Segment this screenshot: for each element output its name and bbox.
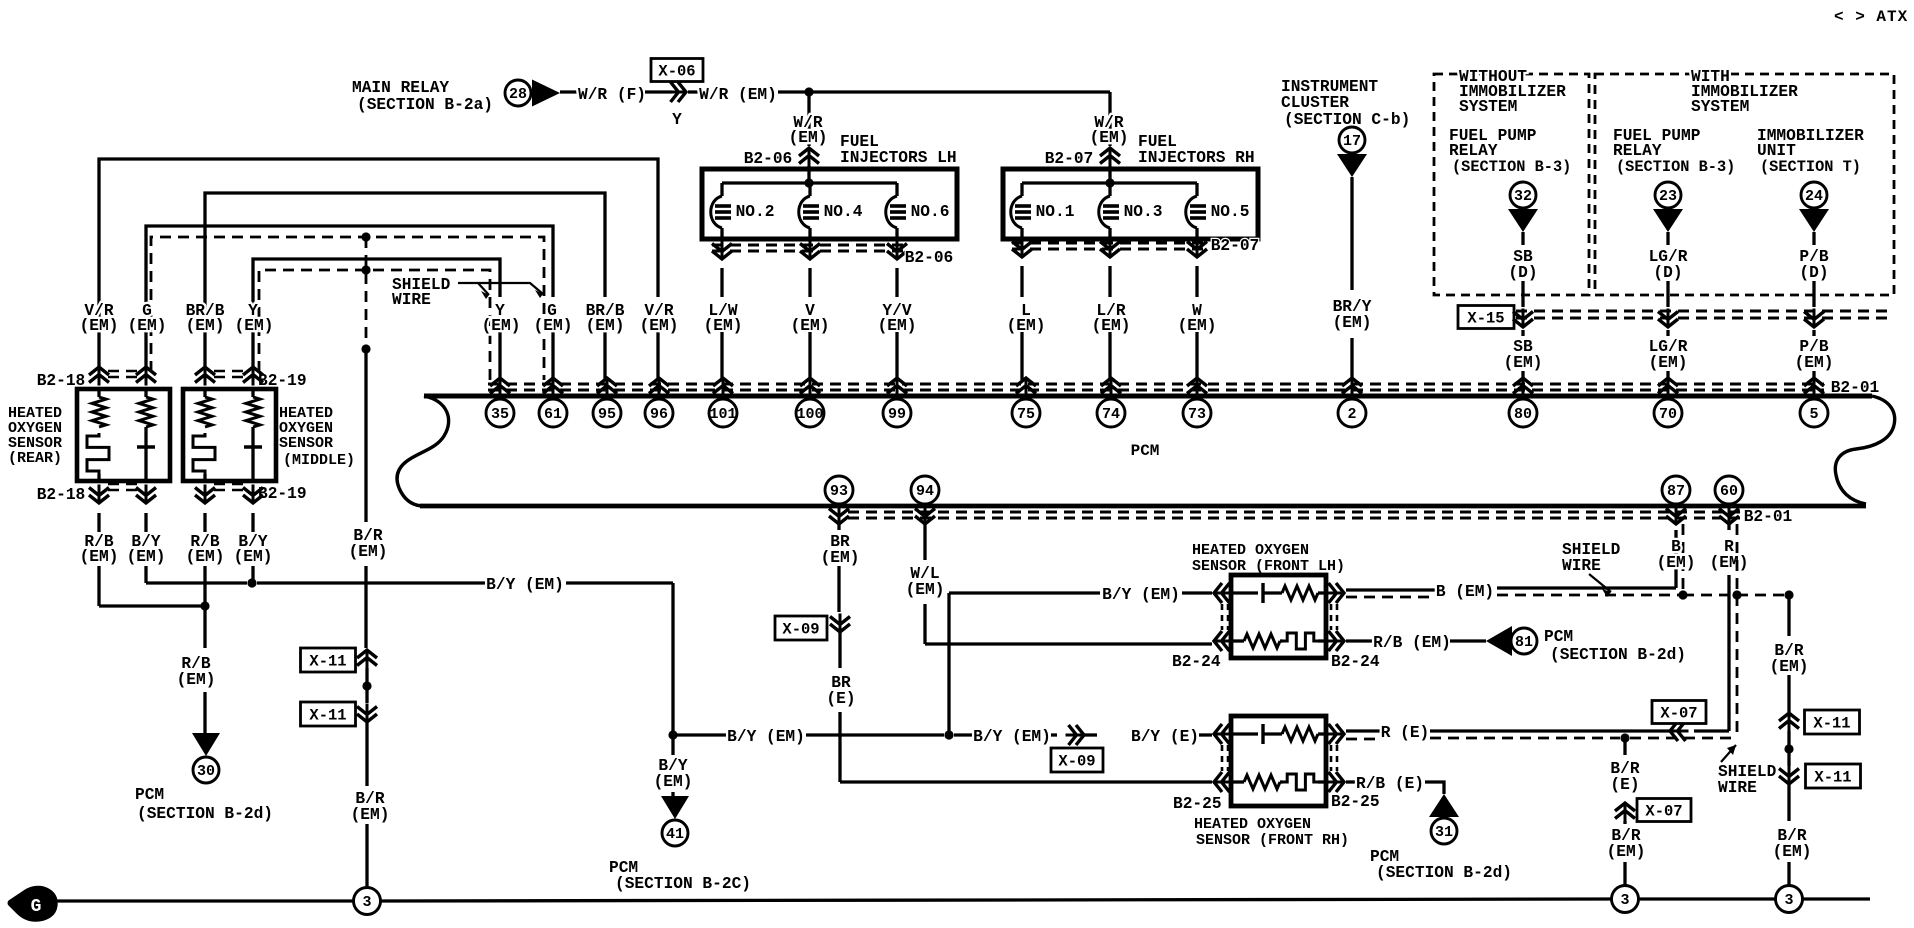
svg-text:(SECTION B-2a): (SECTION B-2a): [357, 96, 493, 114]
ground junction circle 3 right: [1776, 886, 1803, 913]
connector X-07 box lower: [1637, 799, 1691, 822]
connector B2-07 bottom dashed bus: [1012, 242, 1205, 245]
svg-text:(EM): (EM): [235, 317, 274, 335]
wire R/B (E) from front RH heater: [1346, 780, 1357, 783]
svg-text:INJECTORS RH: INJECTORS RH: [1138, 149, 1255, 167]
svg-text:B/Y (EM): B/Y (EM): [486, 576, 564, 594]
svg-text:(EM): (EM): [128, 317, 167, 335]
front RH sensor chevron left top: [1214, 733, 1233, 736]
heated oxygen sensor front LH box: [1231, 575, 1326, 658]
front RH sensor element row: [1231, 732, 1258, 735]
svg-text:(EM): (EM): [80, 548, 119, 566]
connector X-06 box: [651, 59, 703, 82]
svg-text:CLUSTER: CLUSTER: [1281, 94, 1349, 112]
wire W/R(EM) from X-06: [688, 90, 700, 93]
wire Y middle sensor to pin 35: [253, 259, 500, 368]
svg-text:(EM): (EM): [1795, 354, 1834, 372]
connector X-15 box: [1458, 306, 1514, 329]
connector circle 24: [1801, 182, 1827, 208]
svg-text:(EM): (EM): [186, 317, 225, 335]
svg-text:NO.3: NO.3: [1124, 203, 1163, 221]
svg-text:B2-06: B2-06: [744, 150, 793, 168]
wire R/B rear down: [97, 513, 100, 532]
wire injector to PCM: [808, 268, 811, 297]
wire B/R (EM) to ground right: [1623, 821, 1626, 824]
junction dot B/Y to sensor feed: [944, 730, 953, 739]
connector B2-01 chevron pin 96: [658, 378, 661, 397]
middle sensor heater resistor: [203, 389, 206, 397]
svg-text:B2-07: B2-07: [1045, 150, 1094, 168]
injector NO.4 coil: [808, 183, 811, 196]
svg-text:X-11: X-11: [309, 707, 346, 725]
connector B2-01 top dashed bus: [488, 383, 1824, 386]
svg-text:100: 100: [796, 406, 823, 423]
connector X-07 chevron: [1670, 730, 1689, 733]
ground junction circle 3 left: [354, 888, 381, 915]
svg-text:X-07: X-07: [1660, 705, 1697, 723]
connector B2-01 chevron pin 2: [1351, 378, 1354, 397]
wire LG/R (EM) to pin 70: [1666, 330, 1669, 336]
wire R/B rear to junction: [99, 604, 205, 607]
svg-text:41: 41: [666, 826, 684, 843]
wire BR/Y (EM): [1350, 177, 1353, 290]
svg-text:93: 93: [830, 483, 848, 500]
wire G rear sensor to pin 61: [146, 226, 553, 368]
connector B2-06 chevron bottom: [721, 241, 724, 260]
svg-text:(EM): (EM): [640, 317, 679, 335]
wire B/R (E) drop from shield: [1623, 738, 1626, 755]
svg-text:(EM): (EM): [349, 543, 388, 561]
connector X-11 box lower: [301, 702, 356, 726]
connector B2-19 top chevrons: [204, 367, 207, 386]
junction dot W/R: [804, 87, 813, 96]
wire injector RH to PCM: [1108, 266, 1111, 297]
svg-text:SYSTEM: SYSTEM: [1691, 98, 1749, 116]
ground bus wire end: [1803, 897, 1870, 900]
PCM pin 80: [1509, 399, 1537, 427]
connector B2-01 bottom chevron pin 60: [1728, 506, 1731, 525]
svg-text:B2-06: B2-06: [905, 249, 954, 267]
PCM pin 75: [1012, 399, 1040, 427]
middle sensor element resistor: [251, 389, 254, 397]
svg-text:(EM): (EM): [1710, 554, 1749, 572]
PCM pin 73: [1183, 399, 1211, 427]
junction dot shield B/R (E): [1620, 733, 1629, 742]
connector B2-06 bottom dashed bus: [712, 244, 905, 247]
wire R (E) to pin 60 riser: [1694, 729, 1729, 732]
svg-text:MAIN RELAY: MAIN RELAY: [352, 79, 449, 97]
svg-text:X-11: X-11: [1814, 769, 1851, 787]
injectors LH internal bus wire: [722, 181, 897, 184]
wire B/R (EM) down to ground: [1787, 784, 1790, 821]
svg-text:(EM): (EM): [1504, 354, 1543, 372]
junction dot shield 60: [1732, 590, 1741, 599]
svg-text:32: 32: [1514, 188, 1532, 205]
svg-text:(EM): (EM): [821, 549, 860, 567]
wire R (E) from front RH sensor: [1346, 729, 1380, 732]
arrow to PCM 81: [1486, 626, 1512, 656]
PCM pin 99: [883, 399, 911, 427]
front RH sensor chevron right bottom: [1326, 781, 1345, 784]
connector B2-01 chevron pin 95: [606, 378, 609, 397]
svg-text:(REAR): (REAR): [8, 450, 62, 467]
svg-text:(EM): (EM): [1770, 658, 1809, 676]
svg-text:B/Y (E): B/Y (E): [1131, 728, 1199, 746]
wire B/Y rear to the right: [146, 581, 247, 584]
junction dot shield B/R: [1784, 590, 1793, 599]
shield drain wire B/R dashed segment: [365, 237, 368, 349]
arrow to PCM 30: [192, 733, 220, 756]
arrow from fuel pump relay 32: [1508, 209, 1538, 232]
wire BR/B middle sensor to pin 95: [205, 193, 605, 368]
wire B/Y (EM) to X-09: [954, 733, 973, 736]
arrow from immobilizer unit 24: [1799, 209, 1829, 232]
shield dashed wire to B/R drop: [1683, 594, 1789, 597]
wire B/R (EM) right drop: [1787, 595, 1790, 636]
ground symbol G: [11, 889, 54, 918]
svg-text:(EM): (EM): [1649, 354, 1688, 372]
connector B2-19 bottom chevrons: [204, 485, 207, 504]
connector X-07 box: [1652, 701, 1706, 724]
connector B2-06 chevron bottom: [896, 241, 899, 260]
connector B2-07 chevron bottom: [1109, 239, 1112, 258]
wire R (EM) from pin 60: [1727, 524, 1730, 530]
connector B2-01 bottom chevron pin 94: [924, 506, 927, 525]
connector B2-18 top chevrons: [98, 367, 101, 386]
svg-text:B2-25: B2-25: [1173, 795, 1222, 813]
svg-text:(D): (D): [1653, 264, 1682, 282]
ground bus wire: [50, 899, 353, 902]
svg-text:(MIDDLE): (MIDDLE): [283, 452, 355, 469]
svg-text:B2-18: B2-18: [37, 486, 86, 504]
shield dashed pin 60 pair: [1736, 524, 1739, 595]
wire R/B combined down: [203, 606, 206, 648]
svg-text:24: 24: [1805, 188, 1823, 205]
connector circle 17: [1339, 127, 1365, 153]
svg-text:3: 3: [362, 894, 371, 911]
svg-text:(EM): (EM): [177, 671, 216, 689]
connector X-15 chevron SB: [1522, 309, 1525, 328]
svg-text:2: 2: [1347, 406, 1356, 423]
svg-text:B2-01: B2-01: [1744, 508, 1793, 526]
junction dot shield 87: [1678, 590, 1687, 599]
svg-text:73: 73: [1188, 406, 1206, 423]
connector circle 30: [193, 757, 219, 783]
shield junction dot on B/R wire (outer): [361, 232, 370, 241]
shield wire dashed middle sensor (B2-19): [259, 270, 490, 380]
junction dot RH internal: [1105, 178, 1114, 187]
wire LG/R (D): [1666, 232, 1669, 245]
connector B2-07 chevron bottom: [1021, 239, 1024, 258]
wire B/R (EM) down to ground bus: [365, 722, 368, 786]
wire W/R(EM) to junction: [778, 90, 809, 93]
svg-text:(EM): (EM): [1773, 843, 1812, 861]
svg-text:28: 28: [509, 86, 527, 103]
wire to X-06: [645, 90, 672, 93]
shield wire dashed rear sensor (B2-18): [151, 237, 544, 380]
wire between X-11 halves: [365, 668, 368, 703]
svg-text:X-07: X-07: [1645, 803, 1682, 821]
svg-text:SENSOR: SENSOR: [279, 435, 333, 452]
wire drop to injectors LH: [807, 92, 810, 146]
shield dashed pin 87 pair: [1682, 524, 1685, 595]
PCM pin 100: [796, 399, 824, 427]
svg-text:(SECTION B-3): (SECTION B-3): [1616, 158, 1735, 176]
wire BR (E): [838, 632, 841, 668]
svg-text:31: 31: [1435, 824, 1453, 841]
wire V/R rear sensor to pin 96: [99, 159, 658, 368]
svg-text:(EM): (EM): [80, 317, 119, 335]
heated oxygen sensor middle box: [183, 389, 276, 481]
wire B (EM) to pin 87: [1497, 586, 1676, 589]
wire injector to PCM: [720, 268, 723, 297]
injector NO.3 coil: [1108, 183, 1111, 196]
svg-text:X-06: X-06: [658, 63, 695, 81]
rear sensor cell: [144, 427, 147, 447]
svg-text:(EM): (EM): [654, 773, 693, 791]
svg-text:(EM): (EM): [1333, 314, 1372, 332]
wire B/Y (EM) to LH front sensor top row: [949, 591, 1100, 594]
junction dot B/Y bottom: [668, 730, 677, 739]
connector X-09 chevron right: [1066, 734, 1085, 737]
svg-text:(EM): (EM): [351, 806, 390, 824]
svg-text:(SECTION C-b): (SECTION C-b): [1284, 111, 1410, 129]
svg-text:PCM: PCM: [1131, 442, 1160, 460]
svg-text:30: 30: [197, 763, 215, 780]
entry wire inside LH box: [807, 169, 810, 183]
connector B2-06 chevron bottom: [809, 241, 812, 260]
svg-text:101: 101: [709, 406, 736, 423]
svg-text:HEATED OXYGEN: HEATED OXYGEN: [1192, 542, 1309, 559]
shield drain junction dot: [361, 344, 370, 353]
PCM left end scallop: [397, 396, 449, 506]
entry wire inside RH box: [1108, 169, 1111, 183]
arrow from fuel pump relay 23: [1653, 209, 1683, 232]
svg-text:< > ATX: < > ATX: [1834, 8, 1908, 26]
PCM pin 93: [825, 476, 853, 504]
connector B2-01 chevron pin 73: [1196, 378, 1199, 397]
wire R (E) to X-07: [1430, 729, 1673, 732]
svg-text:(E): (E): [1610, 776, 1639, 794]
svg-text:PCM: PCM: [1544, 628, 1573, 646]
arrow to PCM 31: [1429, 794, 1459, 817]
svg-text:X-15: X-15: [1467, 310, 1504, 328]
svg-text:HEATED OXYGEN: HEATED OXYGEN: [1194, 816, 1311, 833]
off-page arrow from main relay: [532, 80, 560, 107]
svg-text:(EM): (EM): [534, 317, 573, 335]
svg-text:(SECTION B-3): (SECTION B-3): [1452, 158, 1571, 176]
wire B/R (EM) shield drain down: [364, 349, 367, 522]
connector B2-18 bottom chevrons: [98, 485, 101, 504]
svg-text:NO.1: NO.1: [1036, 203, 1075, 221]
wire R/B (E) elbow: [1425, 782, 1444, 794]
front LH sensor chevron left bottom: [1214, 640, 1233, 643]
connector X-11 right box lower: [1806, 764, 1861, 788]
junction dot R/B: [200, 601, 209, 610]
junction dot X-11: [362, 681, 371, 690]
connector B2-01 chevron pin 75: [1025, 378, 1028, 397]
svg-text:(EM): (EM): [1007, 317, 1046, 335]
wire injector to PCM: [895, 268, 898, 297]
svg-text:X-11: X-11: [309, 653, 346, 671]
svg-text:70: 70: [1659, 406, 1677, 423]
connector B2-01 chevron pin 100: [809, 378, 812, 397]
svg-text:(EM): (EM): [234, 548, 273, 566]
connector X-11 chevron down: [366, 704, 369, 723]
wire B/Y (EM) long horizontal: [257, 581, 486, 584]
wire B/Y up to LH front sensor: [947, 593, 950, 735]
wire R/B (EM) to arrow: [1450, 639, 1486, 642]
connector B2-01 chevron pin 35: [499, 378, 502, 397]
front RH sensor chevron right top: [1326, 733, 1345, 736]
wire W/L from pin 94: [923, 524, 926, 560]
front LH sensor chevron right top: [1326, 592, 1345, 595]
svg-text:R (E): R (E): [1381, 724, 1430, 742]
shield callout pointer bottom right: [1721, 745, 1736, 762]
wire W/L horizontal to LH front sensor heater: [925, 642, 1212, 645]
connector X-09 chevron: [839, 614, 842, 633]
wire B/Y (EM) below junction to PCM 41: [671, 735, 674, 755]
connector B2-01 chevron pin 61: [552, 378, 555, 397]
svg-text:W/R (EM): W/R (EM): [699, 86, 777, 104]
svg-text:PCM: PCM: [135, 786, 164, 804]
svg-text:(SECTION B-2d): (SECTION B-2d): [1376, 864, 1512, 882]
wire P/B (D): [1812, 232, 1815, 245]
svg-text:NO.2: NO.2: [736, 203, 775, 221]
svg-text:B/Y (EM): B/Y (EM): [727, 728, 805, 746]
svg-text:87: 87: [1667, 483, 1685, 500]
connector B2-06 chevron top: [808, 148, 811, 167]
wire R/B (EM) from front LH heater: [1346, 639, 1375, 642]
injectors RH internal bus wire: [1022, 181, 1197, 184]
PCM pin 61: [539, 399, 567, 427]
svg-text:NO.5: NO.5: [1211, 203, 1250, 221]
svg-text:60: 60: [1720, 483, 1738, 500]
wire R/B middle down: [203, 513, 206, 532]
connector X-15 dashed bus: [1516, 310, 1894, 313]
connector X-07 chevron lower: [1624, 803, 1627, 822]
svg-text:NO.6: NO.6: [911, 203, 950, 221]
connector circle 41: [662, 820, 688, 846]
wire BR (E) horizontal to RH front sensor heater: [840, 780, 1212, 783]
svg-text:(EM): (EM): [1657, 554, 1696, 572]
wire B/Y (E): [1082, 733, 1097, 736]
middle sensor heater element: [193, 433, 215, 474]
shield junction dot on B/R wire (inner): [361, 265, 370, 274]
junction dot LH internal: [804, 178, 813, 187]
svg-text:B/Y (EM): B/Y (EM): [973, 728, 1051, 746]
svg-text:B/Y (EM): B/Y (EM): [1102, 586, 1180, 604]
arrow from instrument cluster: [1337, 154, 1367, 177]
connector circle 28: [505, 80, 531, 106]
svg-text:(SECTION T): (SECTION T): [1760, 158, 1861, 176]
PCM bottom edge: [420, 504, 1866, 509]
svg-text:B (EM): B (EM): [1436, 583, 1494, 601]
svg-text:35: 35: [491, 406, 509, 423]
svg-text:(EM): (EM): [482, 317, 521, 335]
connector B2-07 chevron top: [1109, 148, 1112, 167]
connector X-11 chevron up: [366, 650, 369, 669]
svg-text:WIRE: WIRE: [1562, 557, 1601, 575]
front RH sensor chevron left bottom: [1214, 781, 1233, 784]
svg-text:B2-18: B2-18: [37, 372, 86, 390]
injector NO.6 coil: [895, 183, 898, 196]
PCM pin 94: [911, 476, 939, 504]
ground junction circle 3 middle: [1612, 886, 1639, 913]
heated oxygen sensor rear box: [77, 389, 170, 481]
wire P/B (EM) to pin 5: [1812, 330, 1815, 336]
connector X-11 box upper: [301, 648, 356, 672]
svg-text:SENSOR (FRONT LH): SENSOR (FRONT LH): [1192, 558, 1345, 575]
svg-text:SENSOR (FRONT RH): SENSOR (FRONT RH): [1196, 832, 1349, 849]
connector circle 31: [1431, 818, 1457, 844]
svg-text:(SECTION B-2d): (SECTION B-2d): [137, 805, 273, 823]
wire drop to injectors RH: [1108, 92, 1111, 146]
svg-text:(EM): (EM): [127, 548, 166, 566]
svg-text:(E): (E): [826, 690, 855, 708]
svg-text:X-11: X-11: [1813, 715, 1850, 733]
svg-text:5: 5: [1809, 406, 1818, 423]
fuel injectors RH box: [1003, 169, 1258, 239]
front LH sensor element row: [1231, 591, 1258, 594]
svg-text:INJECTORS LH: INJECTORS LH: [840, 149, 957, 167]
middle sensor cell: [251, 427, 254, 447]
wire W/R(F): [560, 90, 582, 93]
svg-text:X-09: X-09: [1058, 753, 1095, 771]
connector X-09 box left: [775, 616, 827, 640]
svg-text:B2-19: B2-19: [258, 372, 307, 390]
front RH sensor heater row: [1231, 780, 1244, 783]
PCM pin 96: [645, 399, 673, 427]
rear sensor heater element: [87, 433, 109, 474]
svg-text:Y: Y: [672, 111, 682, 129]
wire B/Y middle down: [251, 513, 254, 532]
front RH shield dashed wraps: [1221, 745, 1224, 771]
wire B/Y (EM) continues: [566, 581, 673, 584]
shield callout pointer lines: [458, 283, 543, 294]
connector B2-01 bottom dashed bus: [848, 511, 1740, 514]
PCM pin 60: [1715, 476, 1743, 504]
connector B2-01 chevron pin 99: [896, 378, 899, 397]
PCM right end scallop: [1835, 396, 1894, 504]
svg-text:B2-07: B2-07: [1211, 237, 1260, 255]
ground bus wire right: [1639, 897, 1775, 900]
wire injector RH to PCM: [1020, 266, 1023, 297]
svg-text:(EM): (EM): [1607, 843, 1646, 861]
svg-text:(EM): (EM): [789, 129, 828, 147]
connector X-06 chevron: [668, 91, 687, 94]
svg-text:X-09: X-09: [782, 621, 819, 639]
svg-text:R/B (E): R/B (E): [1356, 775, 1424, 793]
connector B2-01 chevron pin 70: [1667, 378, 1670, 397]
svg-text:17: 17: [1343, 133, 1361, 150]
fuel injectors LH box: [702, 169, 957, 239]
PCM pin 2: [1338, 399, 1366, 427]
with immobilizer system dashed box: [1595, 74, 1894, 295]
junction dot right X-11: [1784, 744, 1793, 753]
injector NO.2 coil: [720, 183, 723, 196]
wire B (EM) from front LH sensor: [1346, 588, 1436, 591]
wire injector RH to PCM: [1195, 266, 1198, 297]
connector B2-01 chevron pin 80: [1522, 378, 1525, 397]
heated oxygen sensor front RH box: [1231, 716, 1326, 806]
svg-text:3: 3: [1620, 892, 1629, 909]
front LH sensor chevron left top: [1214, 592, 1233, 595]
wire B/Y (EM) bottom run: [673, 733, 727, 736]
svg-text:NO.4: NO.4: [824, 203, 863, 221]
PCM pin 5: [1800, 399, 1828, 427]
svg-text:74: 74: [1102, 406, 1120, 423]
